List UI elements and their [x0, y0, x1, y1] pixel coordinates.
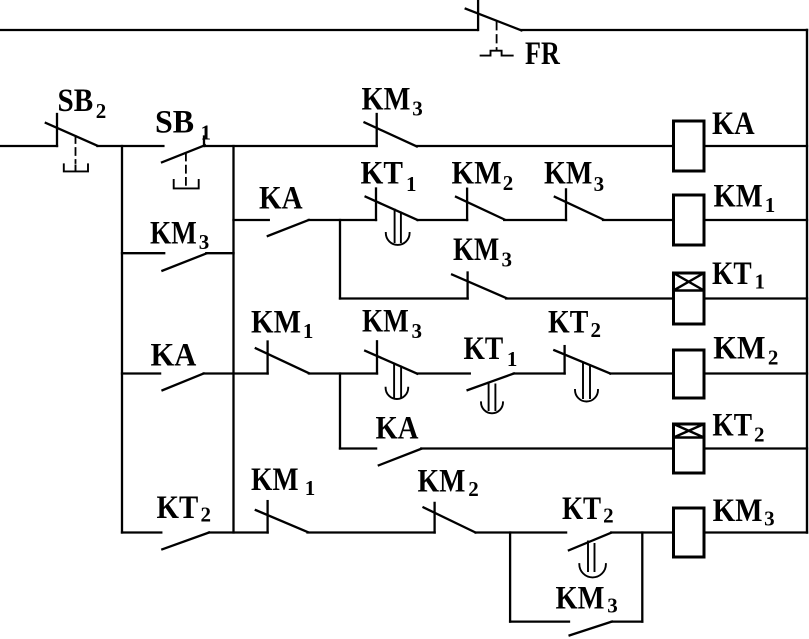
svg-text:KT: KT	[157, 490, 199, 526]
wire row3b KA to coil KT2	[421, 447, 673, 449]
svg-text:FR: FR	[525, 36, 561, 72]
svg-text:KM: KM	[418, 464, 466, 500]
wire row4 KM1 to KM2	[308, 531, 435, 533]
wire row4 KT2 to KM1	[209, 531, 268, 533]
svg-text:1: 1	[507, 347, 518, 371]
svg-text:3: 3	[412, 319, 423, 343]
label KM3 row5	[556, 581, 618, 618]
left rail 1	[121, 146, 123, 533]
label KM1 row3	[251, 304, 313, 343]
svg-text:SB: SB	[155, 105, 194, 141]
label KM1 coil	[714, 178, 776, 216]
label KT2 row3	[548, 305, 601, 342]
coil KT1 (time relay, box with X)	[674, 273, 705, 324]
label KM2 row2	[452, 156, 514, 196]
wire row4 coil KM3 to right rail	[704, 531, 807, 533]
svg-text:KA: KA	[259, 181, 303, 217]
wire row2 KA to KT1	[309, 219, 376, 221]
contact KT2 NO (row4 left)	[162, 533, 209, 550]
svg-text:KM: KM	[362, 82, 411, 118]
coil KM1	[674, 195, 705, 245]
svg-text:3: 3	[412, 97, 423, 121]
wire row2 KT1 to KM2	[418, 219, 468, 221]
wire row3b to KA	[340, 447, 376, 449]
coil KA	[674, 121, 705, 171]
contact KM3 NO (self-holding, parallel to SB1)	[162, 254, 206, 271]
label KT1 coil	[712, 256, 765, 293]
contact KM1 NC (row4)	[256, 501, 308, 532]
right rail	[806, 30, 808, 533]
wire row3 KT2 to coil KM2	[610, 372, 673, 374]
svg-text:3: 3	[607, 594, 618, 618]
svg-text:SB: SB	[58, 83, 94, 119]
svg-text:KM: KM	[453, 232, 499, 268]
wire row1 left	[0, 145, 57, 147]
wire branch down to row3b	[339, 374, 341, 449]
label KM3 row1	[362, 82, 423, 121]
wire link KM3 contact to rail2	[206, 252, 233, 254]
contact KM1 NC (row3)	[256, 342, 309, 374]
wire row4 KT2 to coil KM3	[611, 531, 673, 533]
contact KM3 NC (row2b)	[452, 273, 506, 299]
svg-text:KT: KT	[562, 491, 601, 527]
svg-text:3: 3	[764, 507, 775, 531]
label KM2 row4	[418, 464, 479, 501]
coil KM2	[674, 350, 705, 398]
label KM3 row2	[544, 156, 604, 197]
label KA row3b	[376, 411, 419, 447]
label KT2 row4R	[562, 491, 614, 528]
svg-text:1: 1	[305, 476, 316, 500]
wire row2 KM3 to coil KM1	[603, 219, 674, 221]
svg-text:KT: KT	[361, 156, 403, 192]
svg-text:KM: KM	[713, 330, 765, 366]
svg-text:KT: KT	[712, 408, 752, 444]
svg-text:KA: KA	[151, 337, 197, 373]
label KM3 link	[150, 216, 209, 255]
label KT2 row4L	[157, 490, 212, 527]
wire row3 rail1 to KA	[122, 372, 160, 374]
svg-text:1: 1	[201, 121, 212, 145]
wire row3 KM1 to KM3	[309, 372, 377, 374]
wire row5 right	[612, 620, 643, 622]
svg-text:KM: KM	[544, 156, 592, 192]
svg-text:KM: KM	[714, 178, 763, 214]
svg-text:3: 3	[594, 172, 605, 196]
contact KM3 NC (row1)	[365, 114, 417, 147]
label KM3 coil	[713, 493, 775, 531]
contact KT2 NC delayed (row3)	[554, 346, 610, 401]
svg-text:1: 1	[406, 172, 417, 196]
wire row3 KT1 to KT2	[514, 372, 565, 374]
wire row2b coil KT1 to right rail	[704, 297, 807, 299]
wire row3b coil KT2 to right rail	[704, 447, 807, 449]
wire row3 KM3 to KT1	[417, 372, 470, 374]
svg-text:KA: KA	[376, 411, 419, 447]
label SB2	[58, 83, 107, 123]
thermal overload relay contact FR	[466, 0, 522, 56]
pushbutton SB1 (NO start button)	[162, 137, 205, 189]
svg-text:KM: KM	[556, 581, 605, 617]
wire row1 KM3 to coil KA	[417, 145, 674, 147]
svg-text:KM: KM	[713, 493, 763, 529]
svg-text:2: 2	[603, 504, 614, 528]
contact KM3 NC (row2)	[555, 189, 603, 220]
svg-text:2: 2	[201, 503, 212, 527]
contact KM2 NC (row4)	[424, 503, 476, 533]
svg-text:3: 3	[502, 248, 513, 272]
contact KA NO (row3b)	[379, 449, 421, 466]
svg-text:2: 2	[754, 423, 765, 447]
svg-text:2: 2	[96, 99, 107, 123]
wire row2 rail2 to KA contact	[234, 219, 269, 221]
wire branch down to row2b	[339, 220, 341, 299]
svg-text:1: 1	[765, 193, 776, 217]
wire row3 coil KM2 to right rail	[704, 372, 807, 374]
label KA coil	[712, 106, 755, 142]
svg-text:KA: KA	[712, 106, 755, 142]
wire row1 SB1 to KM3	[205, 145, 377, 147]
contact KT2 NO delayed (row4 right)	[569, 533, 611, 578]
svg-text:2: 2	[591, 318, 602, 342]
wire top bus left segment	[0, 29, 477, 31]
svg-text:2: 2	[468, 477, 479, 501]
wire row3 KA to KM1	[204, 372, 268, 374]
wire row1 coil KA to right rail	[704, 145, 807, 147]
contact KM3 NC delayed (row3)	[365, 341, 417, 399]
wire top bus right segment	[521, 29, 807, 31]
contact KM3 NO (row5)	[570, 622, 612, 636]
svg-text:KT: KT	[464, 331, 504, 367]
label KM3 row2b	[453, 232, 512, 272]
svg-text:2: 2	[768, 346, 779, 370]
wire row5 left	[510, 620, 569, 622]
label KT1 row2	[361, 156, 417, 197]
wire row4 rail1 to KT2	[122, 531, 161, 533]
contact KM2 NC (row2)	[456, 189, 504, 220]
svg-text:KM: KM	[452, 156, 502, 192]
svg-text:3: 3	[199, 230, 210, 254]
svg-text:KT: KT	[548, 305, 588, 341]
label SB1	[155, 105, 211, 145]
wire row2 coil KM1 to right rail	[704, 219, 807, 221]
wire row2b to KM3 contact	[340, 297, 468, 299]
wire row2b KM3 to coil KT1	[506, 297, 673, 299]
pushbutton SB2 (NC stop button)	[46, 114, 98, 171]
label KA row2	[259, 181, 303, 217]
label FR	[525, 36, 561, 72]
label KA row3	[151, 337, 197, 373]
svg-text:1: 1	[303, 319, 314, 343]
wire row1 between SB2 and SB1	[97, 145, 163, 147]
label KT1 row3	[464, 331, 518, 371]
svg-text:1: 1	[755, 270, 766, 294]
wire branch down to row5 left	[509, 533, 511, 622]
wire row4 KM2 to KT2	[476, 531, 567, 533]
svg-text:KM: KM	[362, 304, 409, 340]
label KM3 row3	[362, 304, 422, 344]
contact KT1 NC delayed (row2)	[366, 189, 418, 245]
wire row2 KM2 to KM3	[504, 219, 566, 221]
wire branch down to row5 right	[641, 533, 643, 622]
label KM2 coil	[713, 330, 778, 369]
label KT2 coil	[712, 408, 764, 447]
contact KA NO (row3)	[163, 374, 204, 391]
wire link rail1 to KM3 self-holding contact	[122, 252, 164, 254]
svg-text:KT: KT	[712, 256, 752, 292]
svg-text:KM: KM	[150, 216, 197, 252]
contact KA NO (row2)	[268, 220, 309, 236]
coil KT2 (time relay, box with X)	[674, 424, 705, 473]
contact KT1 NO delayed (row3)	[468, 374, 514, 414]
left rail 2	[232, 146, 234, 533]
svg-text:KM: KM	[251, 304, 301, 340]
svg-text:2: 2	[503, 171, 514, 195]
label KM1 row4	[251, 462, 315, 500]
coil KM3	[674, 508, 705, 557]
svg-text:KM: KM	[251, 462, 299, 498]
